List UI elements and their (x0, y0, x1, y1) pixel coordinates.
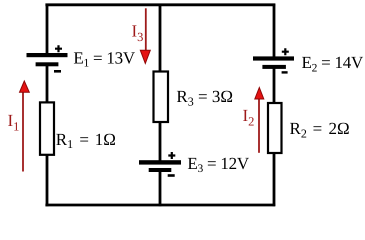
wire bottom horizontal (45, 204, 275, 207)
current arrow I2 (255, 88, 264, 153)
resistor R2 (268, 103, 282, 153)
svg-text:I3: I3 (132, 22, 144, 45)
svg-text:E2 = 14V: E2 = 14V (302, 53, 364, 74)
wire middle vertical (159, 4, 162, 207)
wire left vertical (46, 4, 49, 207)
current arrow I1 (20, 81, 30, 172)
svg-text:E3 = 12V: E3 = 12V (187, 154, 249, 175)
svg-text:E1 = 13V: E1 = 13V (73, 48, 135, 69)
svg-text:I2: I2 (243, 106, 255, 129)
battery E2 (253, 48, 294, 73)
svg-text:R1 = 1Ω: R1 = 1Ω (56, 130, 116, 151)
wire right vertical (273, 4, 276, 207)
battery E3 (139, 152, 181, 177)
svg-text:R2 = 2Ω: R2 = 2Ω (290, 119, 350, 140)
svg-text:I1: I1 (8, 111, 20, 134)
resistor R3 (154, 72, 169, 123)
current arrow I3 (140, 8, 150, 63)
wire top horizontal (45, 3, 275, 6)
battery E1 (27, 45, 68, 72)
resistor R1 (40, 102, 54, 154)
svg-text:R3 = 3Ω: R3 = 3Ω (176, 87, 233, 108)
